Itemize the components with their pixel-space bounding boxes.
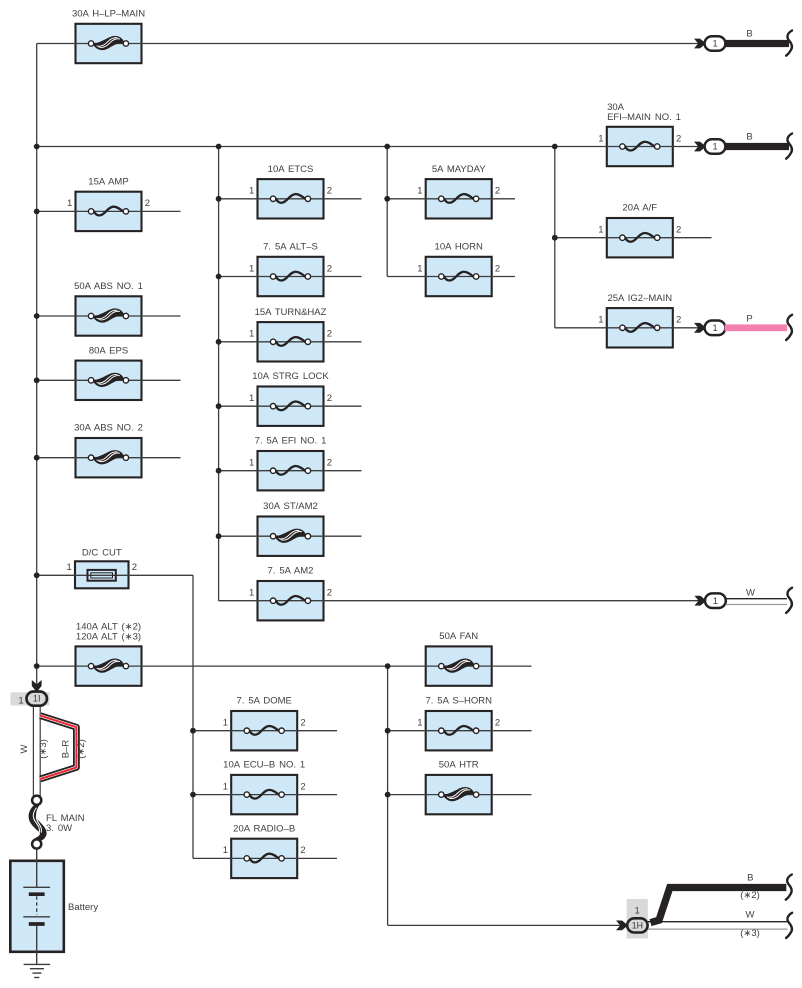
svg-text:2: 2	[327, 186, 332, 197]
svg-text:7. 5A AM2: 7. 5A AM2	[268, 566, 314, 577]
svg-text:1: 1	[249, 458, 254, 469]
svg-text:1: 1	[712, 39, 717, 49]
svg-text:B: B	[746, 132, 752, 143]
svg-text:1: 1	[598, 315, 603, 326]
svg-text:7. 5A DOME: 7. 5A DOME	[236, 696, 291, 707]
svg-text:B: B	[747, 872, 753, 883]
svg-text:7. 5A S–HORN: 7. 5A S–HORN	[425, 696, 492, 707]
svg-text:W: W	[19, 744, 30, 753]
svg-text:80A EPS: 80A EPS	[89, 345, 128, 356]
svg-text:50A ABS NO. 1: 50A ABS NO. 1	[74, 281, 143, 292]
svg-text:1: 1	[417, 718, 422, 729]
svg-text:1: 1	[249, 329, 254, 340]
svg-text:2: 2	[676, 315, 681, 326]
svg-text:1: 1	[223, 845, 228, 856]
svg-text:1: 1	[223, 718, 228, 729]
svg-text:30A ABS NO. 2: 30A ABS NO. 2	[74, 423, 143, 434]
svg-text:2: 2	[327, 393, 332, 404]
svg-text:W: W	[746, 587, 755, 598]
svg-text:B: B	[746, 29, 752, 40]
svg-text:2: 2	[676, 133, 681, 144]
svg-text:Battery: Battery	[68, 902, 98, 913]
svg-text:15A TURN&HAZ: 15A TURN&HAZ	[255, 307, 327, 318]
svg-text:1: 1	[249, 588, 254, 599]
svg-text:B–R: B–R	[61, 740, 72, 759]
svg-text:1: 1	[712, 323, 717, 333]
svg-text:3. 0W: 3. 0W	[46, 823, 72, 834]
svg-text:2: 2	[132, 562, 137, 573]
svg-text:20A A/F: 20A A/F	[623, 203, 658, 214]
svg-text:1: 1	[598, 133, 603, 144]
svg-text:7. 5A EFI NO. 1: 7. 5A EFI NO. 1	[255, 436, 327, 447]
svg-text:10A STRG LOCK: 10A STRG LOCK	[252, 371, 329, 382]
svg-text:1: 1	[67, 198, 72, 209]
svg-text:2: 2	[495, 718, 500, 729]
svg-text:2: 2	[327, 329, 332, 340]
svg-text:25A IG2–MAIN: 25A IG2–MAIN	[607, 293, 672, 304]
svg-text:2: 2	[676, 225, 681, 236]
svg-text:(∗3): (∗3)	[38, 739, 49, 759]
svg-text:W: W	[746, 910, 755, 921]
svg-text:P: P	[746, 314, 752, 325]
svg-text:2: 2	[300, 845, 305, 856]
svg-text:1I: 1I	[33, 694, 41, 704]
svg-text:2: 2	[327, 263, 332, 274]
svg-text:(∗2): (∗2)	[76, 739, 87, 759]
svg-text:1: 1	[18, 695, 23, 706]
svg-text:30A ST/AM2: 30A ST/AM2	[263, 501, 318, 512]
svg-text:5A MAYDAY: 5A MAYDAY	[432, 164, 486, 175]
svg-text:1: 1	[223, 781, 228, 792]
svg-text:50A HTR: 50A HTR	[439, 760, 479, 771]
svg-text:1H: 1H	[632, 921, 643, 931]
svg-text:50A FAN: 50A FAN	[439, 631, 478, 642]
svg-text:1: 1	[249, 393, 254, 404]
svg-text:15A AMP: 15A AMP	[88, 176, 128, 187]
svg-text:2: 2	[300, 781, 305, 792]
svg-text:1: 1	[417, 263, 422, 274]
svg-text:D/C CUT: D/C CUT	[82, 548, 122, 559]
svg-text:30A H–LP–MAIN: 30A H–LP–MAIN	[72, 9, 145, 20]
svg-text:10A HORN: 10A HORN	[435, 242, 483, 253]
svg-text:1: 1	[67, 562, 72, 573]
svg-text:10A ETCS: 10A ETCS	[268, 164, 314, 175]
svg-text:2: 2	[327, 588, 332, 599]
svg-text:2: 2	[300, 718, 305, 729]
svg-text:1: 1	[713, 596, 718, 606]
svg-text:2: 2	[495, 186, 500, 197]
svg-text:2: 2	[327, 458, 332, 469]
svg-text:10A ECU–B NO. 1: 10A ECU–B NO. 1	[223, 760, 305, 771]
svg-text:(∗2): (∗2)	[740, 890, 760, 901]
svg-text:1: 1	[598, 225, 603, 236]
svg-text:2: 2	[495, 263, 500, 274]
svg-text:1: 1	[417, 186, 422, 197]
svg-text:1: 1	[712, 142, 717, 152]
svg-text:1: 1	[635, 905, 640, 916]
svg-text:EFI–MAIN NO. 1: EFI–MAIN NO. 1	[607, 112, 681, 123]
svg-text:(∗3): (∗3)	[740, 928, 760, 939]
svg-text:120A ALT (∗3): 120A ALT (∗3)	[76, 631, 141, 642]
svg-text:2: 2	[145, 198, 150, 209]
svg-text:1: 1	[249, 263, 254, 274]
svg-text:7. 5A ALT–S: 7. 5A ALT–S	[263, 242, 318, 253]
svg-text:1: 1	[249, 186, 254, 197]
svg-text:20A RADIO–B: 20A RADIO–B	[233, 823, 295, 834]
